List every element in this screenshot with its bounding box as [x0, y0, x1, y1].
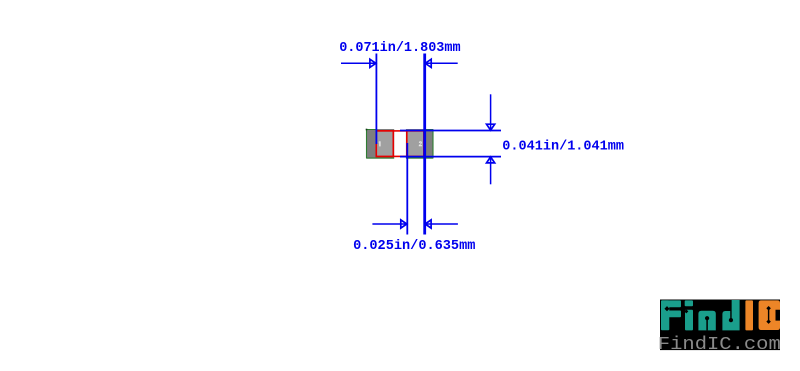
- dim height arrow head up-pointing: [487, 157, 495, 163]
- svg-text:0.041in/1.041mm: 0.041in/1.041mm: [502, 138, 624, 154]
- pad 1: [376, 131, 393, 157]
- dim width arrow head right-pointing: [370, 59, 376, 67]
- dim height: extension line top: [400, 130, 501, 132]
- svg-text:0.025in/0.635mm: 0.025in/0.635mm: [353, 238, 475, 254]
- logo letter I: [745, 300, 753, 330]
- logo letter i: [685, 300, 693, 330]
- component body: [366, 129, 434, 159]
- dim height arrow line top: [490, 94, 492, 130]
- dim pad arrow line left tail: [372, 223, 407, 225]
- dim width: extension line left (pad1 left): [375, 54, 377, 145]
- pin number 2: [419, 141, 422, 146]
- dim width arrow head left-pointing: [425, 59, 431, 67]
- body outline (green): [367, 130, 434, 159]
- svg-text:0.071in/1.803mm: 0.071in/1.803mm: [339, 40, 460, 56]
- gap between pads (white): [394, 129, 406, 160]
- pin number 1: [378, 141, 380, 146]
- dim width arrow line right tail: [425, 62, 458, 64]
- svg-text:FindIC.com: FindIC.com: [658, 333, 781, 355]
- dim width: extension line right (pad2 right, shared): [423, 54, 426, 235]
- dim height arrow line bottom: [490, 157, 492, 185]
- logo background: [660, 300, 780, 351]
- dim height: extension line bottom: [400, 156, 501, 158]
- logo letter C: [759, 300, 780, 330]
- element outline (red): [376, 131, 424, 157]
- dim height arrow head down-pointing: [487, 124, 495, 130]
- dim pad arrow head left-pointing: [425, 220, 431, 228]
- logo letter d: [722, 300, 739, 330]
- dim pad arrow head right-pointing: [401, 220, 407, 228]
- body corner dot: [366, 129, 368, 131]
- logo letter n: [698, 311, 715, 331]
- dim pad: extension line left (pad2 left): [406, 143, 408, 235]
- dim pad arrow line right tail: [425, 223, 458, 225]
- pad 2: [407, 131, 424, 157]
- dim width arrow line left tail: [341, 62, 376, 64]
- logo letter F: [661, 300, 681, 330]
